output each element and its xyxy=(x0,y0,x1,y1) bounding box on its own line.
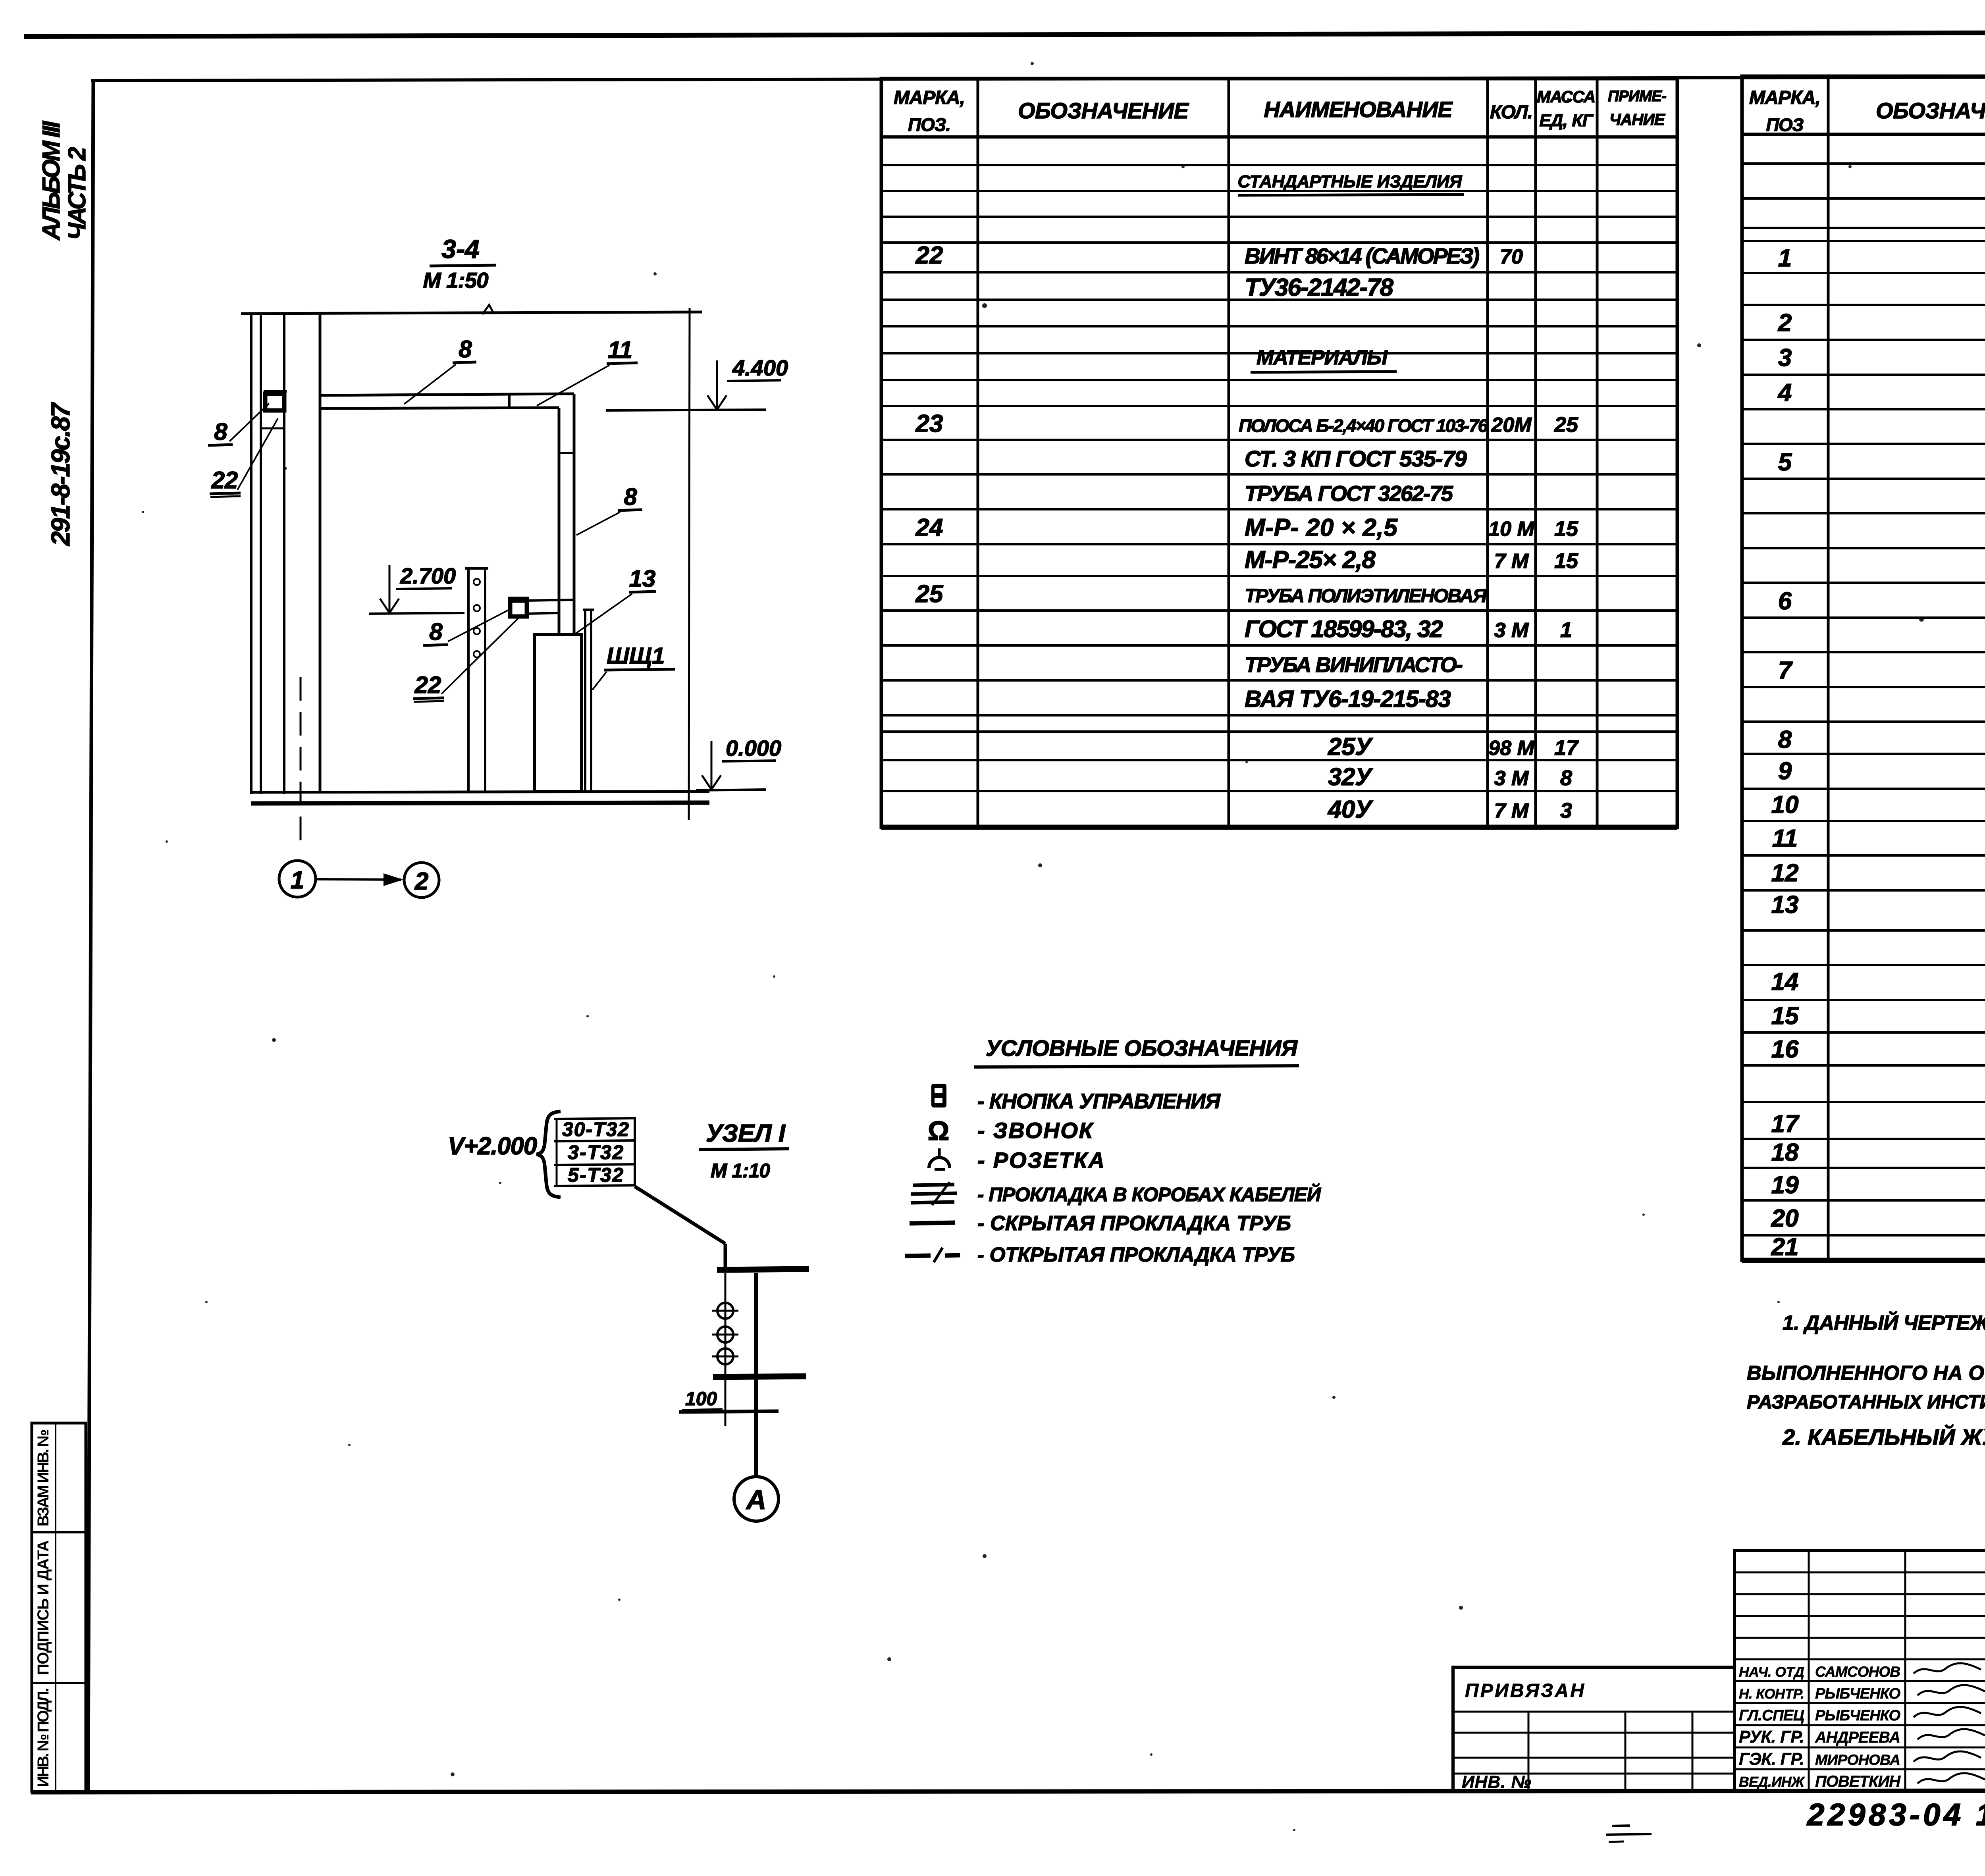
svg-text:НАЧ. ОТД: НАЧ. ОТД xyxy=(1739,1664,1804,1680)
svg-text:ПРИВЯЗАН: ПРИВЯЗАН xyxy=(1465,1680,1584,1701)
svg-text:ГЛ.СПЕЦ: ГЛ.СПЕЦ xyxy=(1739,1707,1804,1724)
svg-text:4: 4 xyxy=(1777,379,1792,406)
svg-text:УСЛОВНЫЕ ОБОЗНАЧЕНИЯ: УСЛОВНЫЕ ОБОЗНАЧЕНИЯ xyxy=(986,1036,1298,1061)
svg-text:15: 15 xyxy=(1554,549,1578,573)
uzel bottom bar xyxy=(679,1411,779,1412)
table 1 row tu36 xyxy=(1245,274,1394,301)
table 2 header texts xyxy=(1749,87,1985,135)
svg-text:17: 17 xyxy=(1771,1110,1800,1138)
svg-text:М-Р-25× 2,8: М-Р-25× 2,8 xyxy=(1245,546,1376,574)
middle stand cap xyxy=(465,567,488,570)
break mark on ceiling line xyxy=(482,305,493,314)
callout 22 wall box left xyxy=(210,418,278,497)
vertical duct inner line xyxy=(558,408,561,635)
svg-text:ВАЯ ТУ6-19-215-83: ВАЯ ТУ6-19-215-83 xyxy=(1245,686,1451,712)
elevation mark 0.000 xyxy=(696,736,781,790)
svg-text:ВИНТ 86×14 (САМОРЕЗ): ВИНТ 86×14 (САМОРЕЗ) xyxy=(1245,244,1480,268)
svg-text:ПОЛОСА Б-2,4×40 ГОСТ 103-76: ПОЛОСА Б-2,4×40 ГОСТ 103-76 xyxy=(1239,416,1488,436)
table 1 row gost18599 xyxy=(1245,615,1572,642)
title block name rows xyxy=(1739,1663,1985,1790)
svg-text:1. ДАННЫЙ ЧЕРТЕЖ РАССМАТРИВАТЬ: 1. ДАННЫЙ ЧЕРТЕЖ РАССМАТРИВАТЬ СОВМЕСТНО… xyxy=(1783,1311,1985,1334)
frame left border xyxy=(88,81,93,1791)
uzel cable group boxes xyxy=(554,1118,636,1186)
svg-text:8: 8 xyxy=(1560,766,1572,790)
svg-text:М 1:50: М 1:50 xyxy=(423,268,489,293)
legend icon exposed run xyxy=(905,1248,960,1262)
table 1 row mr25 xyxy=(1245,546,1578,574)
callout SHCH1 label xyxy=(592,643,675,690)
svg-text:САМСОНОВ: САМСОНОВ xyxy=(1815,1663,1900,1680)
svg-text:13: 13 xyxy=(629,565,656,592)
outer top paper edge line xyxy=(24,32,1985,37)
svg-text:ТРУБА ВИНИПЛАСТО-: ТРУБА ВИНИПЛАСТО- xyxy=(1245,653,1463,677)
table 2 row pos3 pke222 xyxy=(1778,344,1985,372)
table 1 grid xyxy=(881,79,1677,827)
table 1 header texts xyxy=(894,87,1667,135)
ceiling line of section xyxy=(241,312,702,314)
svg-text:3-4: 3-4 xyxy=(441,234,479,264)
section title 3-4 M1:50 xyxy=(423,234,497,293)
svg-text:ПРИМЕ-: ПРИМЕ- xyxy=(1608,88,1667,105)
svg-text:8: 8 xyxy=(429,618,443,645)
table 1 row pos24 mr20 xyxy=(915,514,1578,541)
svg-text:ТУ36-2142-78: ТУ36-2142-78 xyxy=(1245,274,1394,301)
svg-text:25: 25 xyxy=(1554,413,1578,437)
svg-text:ГЭК. ГР.: ГЭК. ГР. xyxy=(1739,1750,1804,1769)
svg-text:6: 6 xyxy=(1778,587,1792,615)
svg-text:3 М: 3 М xyxy=(1494,619,1529,642)
table 2 row pos19 k1087 xyxy=(1771,1171,1985,1199)
svg-text:АНДРЕЕВА: АНДРЕЕВА xyxy=(1815,1729,1900,1746)
svg-text:22: 22 xyxy=(414,672,441,698)
svg-text:МАРКА,: МАРКА, xyxy=(1749,87,1821,108)
table 2 row pos20 stoyka k305 xyxy=(1771,1205,1985,1232)
svg-text:МАТЕРИАЛЫ: МАТЕРИАЛЫ xyxy=(1257,346,1388,369)
axis arrow 1 to 2 xyxy=(316,873,403,886)
table 2 row pos7 korobka klem xyxy=(1778,657,1985,684)
legend title xyxy=(974,1036,1299,1067)
table 2 row pos21 polosa xyxy=(1771,1233,1985,1261)
ceiling cable duct lower line xyxy=(320,408,559,408)
duct joint tick xyxy=(508,395,511,408)
ceiling cable duct upper line xyxy=(320,394,574,395)
svg-text:РЫБЧЕНКО: РЫБЧЕНКО xyxy=(1815,1707,1900,1724)
svg-text:ТРУБА ПОЛИЭТИЛЕНОВАЯ: ТРУБА ПОЛИЭТИЛЕНОВАЯ xyxy=(1245,585,1488,607)
svg-text:КОЛ.: КОЛ. xyxy=(1490,102,1533,123)
svg-text:8: 8 xyxy=(624,483,637,510)
right extent line of section xyxy=(689,308,690,820)
callout 22 button xyxy=(413,614,522,702)
svg-text:10 М: 10 М xyxy=(1488,518,1535,541)
svg-text:ЕД, КГ: ЕД, КГ xyxy=(1540,111,1594,130)
svg-text:70: 70 xyxy=(1500,245,1523,268)
table 2 row pos2 pke720 xyxy=(1778,309,1985,337)
svg-text:ВЕД.ИНЖ: ВЕД.ИНЖ xyxy=(1739,1774,1805,1790)
svg-text:100: 100 xyxy=(685,1389,717,1410)
svg-text:13: 13 xyxy=(1771,891,1799,919)
svg-text:А: А xyxy=(746,1484,767,1515)
vertical duct joint tick xyxy=(559,452,574,454)
svg-text:5-Т32: 5-Т32 xyxy=(568,1164,623,1186)
svg-text:21: 21 xyxy=(1771,1233,1799,1261)
table 2 row pos11 tozhe xyxy=(1772,825,1985,852)
svg-text:ПОЗ.: ПОЗ. xyxy=(908,114,951,135)
uzel node circle A xyxy=(734,1477,779,1521)
svg-text:ОБОЗНАЧЕНИЕ: ОБОЗНАЧЕНИЕ xyxy=(1018,98,1189,123)
callout 8 vertical duct xyxy=(576,483,642,535)
svg-text:40У: 40У xyxy=(1327,796,1373,823)
table 1 row 25u xyxy=(1328,733,1579,761)
duct bottom horizontal lower xyxy=(527,613,559,614)
svg-text:ЧАНИЕ: ЧАНИЕ xyxy=(1609,110,1666,129)
svg-text:10: 10 xyxy=(1771,791,1799,819)
svg-text:- ЗВОНОК: - ЗВОНОК xyxy=(977,1118,1094,1143)
svg-text:12: 12 xyxy=(1771,859,1799,887)
svg-text:22983-04 14: 22983-04 14 xyxy=(1806,1797,1985,1832)
table 2 row pos1 shchit xyxy=(1778,245,1985,272)
svg-text:ИНВ. № ПОДЛ.: ИНВ. № ПОДЛ. xyxy=(35,1688,52,1787)
uzel fastener symbols xyxy=(712,1298,738,1369)
svg-text:ОБОЗНАЧЕНИЕ: ОБОЗНАЧЕНИЕ xyxy=(1876,98,1985,123)
table 2 row pos18 k1085 xyxy=(1771,1139,1985,1166)
table 2 row pos17 k1082 xyxy=(1771,1110,1985,1138)
svg-text:20: 20 xyxy=(1771,1205,1799,1232)
callout 8 ceiling duct xyxy=(404,336,476,404)
table 2 row pos13 korob prisoed xyxy=(1771,891,1985,919)
callout 13 duct bottom xyxy=(576,565,656,634)
wall mounted box pos8 xyxy=(264,391,287,410)
table 2 row pos10 korob uglovoy xyxy=(1771,791,1985,819)
svg-text:ШЩ1: ШЩ1 xyxy=(607,643,665,669)
table 1 row 32u xyxy=(1328,763,1572,791)
svg-text:МАССА: МАССА xyxy=(1537,87,1596,106)
table 1 row truba gost xyxy=(1245,481,1453,506)
legend icon control button xyxy=(931,1084,946,1107)
title block signature grid xyxy=(1734,1550,1985,1791)
table 2 row pos9 korob troynik xyxy=(1778,757,1985,785)
svg-text:- РОЗЕТКА: - РОЗЕТКА xyxy=(977,1148,1104,1173)
table 2 row pos6 korobka prot xyxy=(1778,587,1985,615)
axis dashed line xyxy=(300,677,302,850)
wall line b xyxy=(260,314,262,794)
svg-text:РАЗРАБОТАННЫХ ИНСТИТУТОМ СО: РАЗРАБОТАННЫХ ИНСТИТУТОМ СОЮЗСПОРТПРОЕКТ… xyxy=(1747,1391,1985,1413)
floor line lower thick xyxy=(251,803,709,803)
elevation mark 2.700 xyxy=(369,563,464,614)
table 2 row pos4 yashchik xyxy=(1777,379,1985,406)
uzel thin stand line xyxy=(725,1273,727,1426)
uzel middle bar xyxy=(713,1376,806,1377)
svg-text:РЫБЧЕНКО: РЫБЧЕНКО xyxy=(1815,1685,1900,1702)
svg-text:V+2.000: V+2.000 xyxy=(448,1133,537,1160)
svg-text:8: 8 xyxy=(459,336,472,362)
svg-text:15: 15 xyxy=(1554,517,1578,541)
svg-text:30-Т32: 30-Т32 xyxy=(562,1118,629,1140)
svg-text:ИНВ. №: ИНВ. № xyxy=(1462,1772,1531,1792)
svg-text:98 М: 98 М xyxy=(1488,737,1535,760)
svg-text:3-Т32: 3-Т32 xyxy=(568,1141,623,1163)
table 2 row pos14 zaglushka xyxy=(1771,968,1985,996)
wall line d room left wall xyxy=(319,314,322,792)
svg-text:СТАНДАРТНЫЕ ИЗДЕЛИЯ: СТАНДАРТНЫЕ ИЗДЕЛИЯ xyxy=(1238,172,1463,191)
left stamp cells xyxy=(32,1423,86,1791)
cabinet stand line b xyxy=(590,610,592,792)
callout 8 button stand xyxy=(423,608,512,645)
table 2 row pos8 korob pryamoy xyxy=(1778,726,1985,753)
uzel thick stand line xyxy=(754,1273,758,1477)
legend icon concealed run xyxy=(910,1223,955,1223)
cabinet SHCH1 xyxy=(534,634,582,792)
svg-text:ПОДПИСЬ И ДАТА: ПОДПИСЬ И ДАТА xyxy=(35,1540,52,1675)
floor line upper xyxy=(251,792,709,792)
svg-text:24: 24 xyxy=(915,514,943,541)
svg-text:ВЗАМ ИНВ. №: ВЗАМ ИНВ. № xyxy=(35,1429,52,1527)
svg-text:РУК. ГР.: РУК. ГР. xyxy=(1739,1728,1804,1747)
table 2 row pos15 stoyka xyxy=(1771,1002,1985,1030)
table 1 heading standard items xyxy=(1238,172,1465,195)
wall line a xyxy=(250,314,252,794)
svg-text:7 М: 7 М xyxy=(1494,550,1529,573)
middle stand rail right xyxy=(484,568,486,792)
uzel brace xyxy=(537,1111,561,1197)
axis bubble 2 xyxy=(404,863,439,898)
svg-text:23: 23 xyxy=(915,410,943,437)
svg-text:14: 14 xyxy=(1771,968,1799,996)
svg-text:18: 18 xyxy=(1771,1139,1799,1166)
svg-text:15: 15 xyxy=(1771,1002,1799,1030)
svg-text:СТ. 3 КП ГОСТ 535-79: СТ. 3 КП ГОСТ 535-79 xyxy=(1245,446,1467,471)
wall line c xyxy=(283,314,285,794)
uzel dimension 100 xyxy=(682,1389,723,1410)
control button on stand pos22 xyxy=(508,598,529,616)
svg-text:19: 19 xyxy=(1771,1171,1799,1199)
svg-text:25У: 25У xyxy=(1328,733,1373,761)
callout 8 wall box left xyxy=(208,403,269,445)
wall tie line xyxy=(261,428,284,430)
svg-text:25: 25 xyxy=(915,580,944,608)
svg-text:МИРОНОВА: МИРОНОВА xyxy=(1815,1751,1900,1768)
svg-text:ПОВЕТКИН: ПОВЕТКИН xyxy=(1815,1773,1901,1790)
table 1 row pos25 truba poly xyxy=(915,580,1488,608)
svg-text:НАИМЕНОВАНИЕ: НАИМЕНОВАНИЕ xyxy=(1264,97,1453,122)
svg-text:- КНОПКА УПРАВЛЕНИЯ: - КНОПКА УПРАВЛЕНИЯ xyxy=(977,1090,1221,1113)
table 1 row 40u xyxy=(1327,796,1572,823)
middle stand holes xyxy=(474,579,480,657)
svg-text:16: 16 xyxy=(1771,1036,1799,1063)
table 2 row pos12 tozhe xyxy=(1771,859,1985,887)
svg-text:- СКРЫТАЯ ПРОКЛАДКА ТРУБ: - СКРЫТАЯ ПРОКЛАДКА ТРУБ xyxy=(977,1212,1291,1235)
svg-text:3 М: 3 М xyxy=(1494,767,1529,790)
vertical duct outer line xyxy=(573,394,576,635)
svg-text:8: 8 xyxy=(1778,726,1792,753)
svg-text:ВЫПОЛНЕННОГО НА ОСНОВАНИИ Ч: ВЫПОЛНЕННОГО НА ОСНОВАНИИ ЧЕРТЕЖЕЙ МАРКИ… xyxy=(1747,1362,1985,1384)
uzel leader diagonal xyxy=(635,1186,725,1244)
uzel title xyxy=(699,1120,789,1182)
svg-text:2. КАБЕЛЬНЫЙ ЖУРНАЛ СМ: ЛИСТ: 2. КАБЕЛЬНЫЙ ЖУРНАЛ СМ: ЛИСТ 10 xyxy=(1782,1424,1985,1450)
svg-text:М-Р- 20 × 2,5: М-Р- 20 × 2,5 xyxy=(1245,514,1398,541)
svg-text:2: 2 xyxy=(414,868,428,895)
cabinet stand line a xyxy=(584,610,586,792)
duct bottom horizontal upper xyxy=(527,600,574,601)
svg-text:Н. КОНТР.: Н. КОНТР. xyxy=(1739,1686,1804,1702)
table 1 row vaya tu6 xyxy=(1245,686,1451,712)
svg-text:22: 22 xyxy=(915,242,943,269)
svg-text:2: 2 xyxy=(1778,309,1792,337)
legend icon socket xyxy=(929,1148,950,1169)
table 1 row pos23 polosa xyxy=(915,410,1578,437)
uzel leader vertical xyxy=(724,1244,727,1269)
uzel top bar xyxy=(717,1269,809,1270)
svg-text:- ОТКРЫТАЯ ПРОКЛАДКА ТРУБ: - ОТКРЫТАЯ ПРОКЛАДКА ТРУБ xyxy=(977,1243,1295,1266)
svg-text:1: 1 xyxy=(1560,618,1572,642)
table 2 row pos5 zvonok xyxy=(1778,449,1985,476)
svg-text:11: 11 xyxy=(608,337,632,363)
axis bubble 1 xyxy=(279,861,316,897)
svg-text:20М: 20М xyxy=(1491,414,1532,437)
small reference marks bottom left xyxy=(1606,1826,1652,1842)
svg-text:ГОСТ 18599-83, 32: ГОСТ 18599-83, 32 xyxy=(1245,615,1443,642)
svg-text:7: 7 xyxy=(1778,657,1793,684)
svg-text:4.400: 4.400 xyxy=(732,355,788,380)
table 2 grid xyxy=(1742,76,1985,1260)
svg-text:УЗЕЛ I: УЗЕЛ I xyxy=(706,1120,786,1147)
svg-text:32У: 32У xyxy=(1328,763,1373,791)
frame top border xyxy=(91,76,1985,81)
svg-text:5: 5 xyxy=(1778,449,1792,476)
svg-text:2.700: 2.700 xyxy=(400,563,456,588)
middle stand rail left xyxy=(467,568,470,792)
cabinet stand top tick xyxy=(583,609,594,611)
table 1 heading materials xyxy=(1251,346,1397,372)
callout 11 duct corner xyxy=(537,337,638,406)
svg-text:1: 1 xyxy=(291,867,304,894)
svg-text:АЛЬБОМ III: АЛЬБОМ III xyxy=(38,120,65,241)
svg-text:3: 3 xyxy=(1778,344,1792,372)
svg-text:9: 9 xyxy=(1778,757,1792,785)
svg-text:- ПРОКЛАДКА В КОРОБАХ КАБЕЛЕЙ: - ПРОКЛАДКА В КОРОБАХ КАБЕЛЕЙ xyxy=(977,1183,1322,1206)
title block privyazan section xyxy=(1453,1667,1734,1792)
svg-text:7 М: 7 М xyxy=(1494,799,1529,822)
svg-text:Ω: Ω xyxy=(928,1116,950,1146)
legend icon duct run xyxy=(911,1182,957,1205)
svg-text:ТРУБА ГОСТ 3262-75: ТРУБА ГОСТ 3262-75 xyxy=(1245,481,1453,506)
elevation mark 4.400 xyxy=(606,355,788,410)
svg-text:ЧАСТЬ 2: ЧАСТЬ 2 xyxy=(64,147,91,240)
table 2 row pos16 shveller xyxy=(1771,1036,1985,1063)
svg-text:МАРКА,: МАРКА, xyxy=(894,87,965,108)
table 1 row pos22 vint xyxy=(915,242,1523,269)
svg-text:М 1:10: М 1:10 xyxy=(711,1159,770,1182)
svg-text:291-8-19с.87: 291-8-19с.87 xyxy=(46,402,75,547)
table 1 row truba vinyl xyxy=(1245,653,1463,677)
svg-text:0.000: 0.000 xyxy=(726,736,781,761)
svg-text:ПОЗ: ПОЗ xyxy=(1766,115,1804,135)
svg-text:22: 22 xyxy=(211,467,238,493)
sidebar document number rotated xyxy=(46,402,75,547)
table 1 row st3kp xyxy=(1245,446,1467,471)
svg-text:3: 3 xyxy=(1560,799,1572,822)
svg-text:1: 1 xyxy=(1778,245,1792,272)
svg-text:8: 8 xyxy=(214,418,227,445)
sidebar album III part 2 rotated xyxy=(38,120,91,241)
svg-text:11: 11 xyxy=(1772,825,1798,852)
svg-text:17: 17 xyxy=(1554,736,1579,760)
frame bottom border xyxy=(31,1790,1985,1792)
